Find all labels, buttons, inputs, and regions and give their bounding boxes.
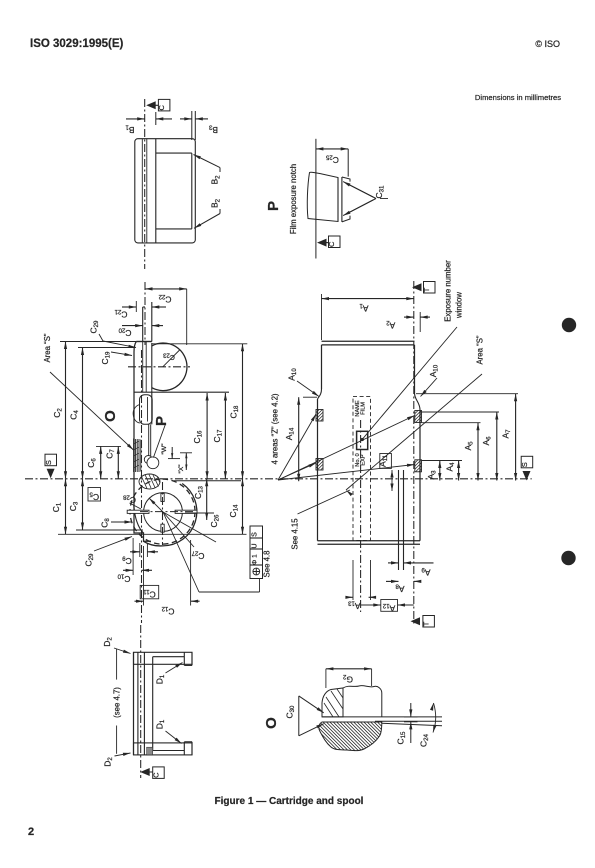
area S leader right bbox=[346, 374, 482, 496]
view3 chamber slot top bbox=[161, 494, 164, 502]
dimension B1 bbox=[126, 112, 172, 125]
svg-text:S: S bbox=[44, 460, 53, 465]
label C24 bbox=[419, 733, 431, 747]
view3 vertical centerline lower bbox=[141, 350, 143, 623]
svg-text:C: C bbox=[157, 105, 166, 111]
dimension A7 bbox=[514, 394, 517, 481]
dimension C24 arc bbox=[430, 703, 437, 733]
label B3 bbox=[208, 123, 218, 135]
svg-text:See 4.15: See 4.15 bbox=[291, 518, 300, 550]
frame leader bbox=[163, 512, 260, 592]
dimension C25 bbox=[316, 147, 348, 176]
view3 spool core circle bbox=[144, 493, 183, 532]
label C18 bbox=[229, 405, 241, 419]
svg-text:FILM: FILM bbox=[361, 402, 367, 415]
dimension C15 bbox=[404, 703, 418, 743]
dimension C6 bbox=[99, 446, 102, 478]
note see 4.15 bbox=[291, 490, 351, 550]
note dimensions in millimetres bbox=[475, 93, 561, 102]
svg-text:Film exposure notch: Film exposure notch bbox=[289, 164, 298, 234]
label A3 bbox=[426, 470, 438, 480]
dimension G2 bbox=[326, 667, 372, 688]
dimension C9 bbox=[130, 543, 158, 557]
label B2 lower bbox=[210, 198, 222, 208]
label A9 bbox=[421, 566, 431, 578]
view4 datum T top bbox=[412, 282, 435, 294]
area S leader bbox=[50, 372, 134, 450]
ext line bulb top right bbox=[152, 343, 247, 345]
view4 right edge bbox=[415, 345, 421, 541]
svg-text:© ISO: © ISO bbox=[535, 39, 560, 49]
annotation 4 areas Z bbox=[271, 393, 280, 464]
view3 film chamber bulb bbox=[152, 343, 187, 391]
view5 datum C bbox=[140, 767, 164, 779]
label C7 bbox=[105, 449, 117, 459]
label C16 bbox=[192, 430, 204, 444]
area S annotation bbox=[43, 333, 52, 362]
dimension A3 bbox=[438, 461, 441, 481]
view2 notch V lines bbox=[343, 182, 376, 216]
label C22 bbox=[158, 293, 172, 305]
view1 datum C bbox=[146, 99, 170, 111]
label G2 bbox=[342, 673, 353, 685]
view4 window ext lines bbox=[353, 560, 371, 600]
view2 datum C bbox=[317, 236, 340, 248]
feature control frame bbox=[250, 526, 263, 579]
view4 exp no text bbox=[355, 453, 367, 466]
annotation exposure number window bbox=[444, 260, 464, 322]
label C30 bbox=[285, 705, 297, 719]
ext line chamber step right bbox=[140, 533, 247, 535]
label D2 upper bbox=[102, 637, 131, 654]
label A12 boxed bbox=[361, 600, 414, 614]
dimension A11 arrows bbox=[390, 470, 393, 491]
dimension C17 bbox=[224, 393, 227, 479]
label C6 bbox=[86, 458, 98, 468]
view3 spool chamber dashed circle bbox=[130, 479, 195, 544]
view3 lip hump bbox=[133, 405, 140, 424]
view3 light trap finger bbox=[140, 395, 153, 425]
label C4 bbox=[69, 410, 81, 420]
view3 film slit to gate bbox=[143, 342, 147, 393]
ext line shoulder left bbox=[60, 341, 136, 343]
svg-text:“X”: “X” bbox=[178, 464, 185, 474]
label C3 bbox=[68, 501, 80, 511]
view4 top edge bbox=[322, 341, 415, 345]
svg-text:O: O bbox=[263, 717, 280, 729]
datum S right bbox=[520, 456, 533, 480]
view4 film slot bbox=[399, 470, 404, 570]
view5 core bbox=[134, 652, 153, 755]
svg-text:“W”: “W” bbox=[161, 443, 168, 455]
svg-text:NAME: NAME bbox=[355, 400, 361, 416]
view2 title film exposure notch bbox=[289, 164, 298, 234]
label P view3 bbox=[153, 416, 170, 458]
view4 left edge bbox=[318, 345, 322, 541]
label C21 bbox=[114, 308, 128, 320]
label A10 left bbox=[287, 368, 320, 397]
svg-text:Dimensions in millimetres: Dimensions in millimetres bbox=[475, 93, 561, 102]
label D2 lower bbox=[103, 753, 131, 767]
see 4.7 bracket bbox=[116, 649, 118, 754]
svg-text:2: 2 bbox=[28, 826, 34, 838]
copyright ISO top right bbox=[535, 39, 560, 49]
view6 upper-right lobe bbox=[343, 686, 382, 717]
svg-text:C: C bbox=[327, 241, 336, 247]
view5 top flange bbox=[134, 652, 193, 665]
view3 lip outline bbox=[143, 302, 152, 342]
view3 chamber horizontal centerline bbox=[140, 511, 193, 513]
dimension A2 bbox=[404, 312, 430, 332]
view3 bulb radius C23 bbox=[163, 350, 180, 367]
label D1 lower bbox=[155, 719, 182, 743]
svg-text:Exposure number: Exposure number bbox=[444, 260, 453, 322]
view3 bulb chord extension bbox=[151, 391, 153, 425]
figure caption bbox=[215, 796, 364, 807]
ext line C4 top bbox=[78, 347, 134, 349]
datum S left bbox=[44, 454, 57, 478]
dimension C14 bbox=[241, 479, 244, 535]
label C13 bbox=[193, 485, 205, 499]
callout B2 lower bbox=[194, 209, 220, 228]
view2 edge line bbox=[315, 139, 317, 259]
label X bbox=[178, 464, 185, 474]
view4 slot ext lines bbox=[398, 558, 400, 570]
label A5 bbox=[463, 441, 475, 451]
view5 bottom flange bbox=[134, 742, 193, 755]
label C1 bbox=[51, 502, 63, 512]
dimension X bbox=[180, 453, 192, 470]
view4 window centerline bbox=[360, 420, 362, 612]
label C29 top bbox=[89, 320, 137, 348]
label C10 bbox=[117, 572, 131, 584]
dimension C16 bbox=[206, 393, 209, 479]
dimension A4 bbox=[457, 461, 460, 481]
label B2 upper bbox=[210, 175, 222, 185]
dimension C3 bbox=[81, 479, 84, 530]
view3 chamber vertical centerline bbox=[162, 482, 164, 545]
dimension A14 bbox=[297, 397, 317, 481]
view3 shoulder bbox=[136, 341, 152, 343]
svg-text:P: P bbox=[153, 416, 170, 426]
ext line A7 bbox=[416, 393, 518, 395]
label O view3 bbox=[102, 410, 119, 422]
view1 body film plane line bbox=[155, 139, 157, 243]
dimension C7 bbox=[117, 446, 120, 478]
label C11 boxed bbox=[140, 585, 159, 599]
label B1 bbox=[125, 123, 135, 135]
svg-text:See 4.8: See 4.8 bbox=[263, 551, 272, 578]
view2 notch body bbox=[307, 172, 350, 222]
view3 radial arrow C28 bbox=[149, 498, 163, 512]
dimension B3 bbox=[180, 111, 208, 140]
dimension C21 bbox=[122, 301, 166, 312]
dimension A1 bbox=[322, 294, 414, 340]
label A8 bbox=[395, 582, 405, 594]
svg-text:Area “S”: Area “S” bbox=[476, 335, 485, 364]
view2 label P bbox=[265, 201, 282, 211]
view4 hatched area Z left-bottom bbox=[316, 459, 323, 471]
label C19 bbox=[100, 351, 132, 365]
label C5 boxed bbox=[88, 488, 101, 503]
label A6 bbox=[481, 436, 493, 446]
view1 inner recess bbox=[156, 153, 192, 229]
dimension A5 bbox=[476, 423, 479, 481]
view3 vertical centerline upper bbox=[144, 282, 146, 345]
view3 roller W bbox=[147, 457, 159, 469]
label C8 bbox=[100, 518, 133, 528]
label A1 bbox=[359, 302, 369, 314]
view3 felt light trap bbox=[134, 439, 141, 473]
view4 datum line T bbox=[413, 281, 415, 625]
header text ISO 3029:1995(E) bbox=[30, 38, 124, 50]
view5 centerline bbox=[140, 625, 142, 778]
view3 roller small bbox=[144, 456, 152, 464]
dimension C22 bbox=[145, 287, 187, 290]
label C9 bbox=[122, 554, 132, 566]
view4 hatched area Z left-top bbox=[316, 410, 323, 422]
label C12 bbox=[161, 605, 175, 617]
ext line C22 right bbox=[186, 289, 188, 345]
view3 bulb centerline bbox=[128, 366, 190, 368]
registration dot lower bbox=[561, 551, 575, 565]
view4 film name panel dashed bbox=[353, 397, 371, 541]
view4 hatched area Z right-bottom bbox=[415, 460, 422, 472]
view3 chamber slot bottom bbox=[161, 524, 164, 532]
ext line A6 bbox=[420, 411, 499, 413]
svg-text:O: O bbox=[102, 410, 119, 422]
svg-text:window: window bbox=[455, 292, 464, 319]
view3 left profile bbox=[134, 342, 151, 542]
areas Z leaders bbox=[278, 414, 415, 480]
view4 datum T bottom bbox=[411, 616, 435, 628]
label C25 bbox=[325, 153, 339, 165]
svg-text:Figure 1 — Cartridge and spool: Figure 1 — Cartridge and spool bbox=[215, 796, 364, 807]
page number 2 bbox=[28, 826, 34, 838]
svg-text:S: S bbox=[251, 532, 258, 537]
dimension A8 bbox=[386, 580, 421, 583]
view6 lower mass bbox=[319, 722, 382, 751]
view3 horizontal centerline bbox=[25, 478, 532, 480]
view1 centerline bbox=[144, 99, 146, 269]
label C31 bbox=[374, 185, 388, 199]
label C27 bbox=[163, 512, 216, 561]
view6 upper-left lobe bbox=[322, 688, 343, 717]
svg-text:U: U bbox=[251, 543, 258, 548]
view6 lower mass hatch bbox=[318, 722, 382, 751]
ext line C6 C7 top bbox=[96, 445, 121, 447]
svg-text:(see 4.7): (see 4.7) bbox=[113, 687, 122, 718]
dimension C12 bbox=[135, 540, 200, 606]
label C29 bottom bbox=[84, 537, 133, 567]
exposure window leader bbox=[362, 327, 457, 439]
annotation see 4.7 bbox=[113, 687, 122, 718]
label C14 bbox=[228, 504, 240, 518]
dimension C18 bbox=[241, 344, 244, 479]
view4 hatched area Z right-top bbox=[415, 411, 422, 423]
area S annotation right bbox=[476, 335, 485, 364]
ext line C3 bottom bbox=[76, 529, 143, 531]
C30 callout bbox=[299, 696, 324, 736]
svg-text:S: S bbox=[520, 462, 529, 467]
dimension A13 bbox=[345, 596, 376, 599]
dimension A6 bbox=[495, 412, 498, 481]
registration dot upper bbox=[562, 318, 576, 332]
label A10 right bbox=[421, 364, 440, 396]
view3 gate hatched block bbox=[139, 474, 160, 489]
dimension C2 bbox=[64, 342, 67, 479]
dimension C20 bbox=[122, 324, 163, 327]
view5 gray patch bbox=[147, 747, 153, 755]
label C26 bbox=[185, 513, 221, 527]
label C17 bbox=[212, 429, 224, 443]
label A2 bbox=[386, 319, 396, 331]
label C2 bbox=[52, 408, 64, 418]
dimension C4 bbox=[81, 348, 84, 479]
svg-text:ISO 3029:1995(E): ISO 3029:1995(E) bbox=[30, 38, 124, 50]
label A11 boxed bbox=[378, 454, 392, 469]
svg-text:4 areas “Z” (see 4.2): 4 areas “Z” (see 4.2) bbox=[271, 393, 280, 464]
label A4 bbox=[445, 462, 457, 472]
dimension C1 bbox=[64, 479, 67, 535]
view4 exposure number window box bbox=[357, 431, 368, 449]
view3 film channel bbox=[149, 424, 151, 456]
view4 bottom edge bbox=[318, 541, 421, 545]
label C28 bbox=[122, 493, 141, 509]
label W bbox=[161, 443, 168, 455]
view1 film slit lines bbox=[142, 139, 147, 243]
ext line A5 bbox=[422, 422, 481, 424]
label A13 bbox=[347, 599, 360, 611]
svg-text:Area “S”: Area “S” bbox=[43, 333, 52, 362]
view3 chamber floor line bbox=[135, 391, 230, 393]
svg-text:T: T bbox=[422, 287, 431, 292]
label C20 bbox=[118, 326, 132, 338]
view1 body outline bbox=[135, 139, 196, 243]
label C15 bbox=[396, 731, 408, 745]
view4 film name text bbox=[355, 400, 367, 416]
dimension A9 bbox=[388, 561, 434, 564]
label O view6 bbox=[263, 717, 280, 729]
view3 spool chamber wall bbox=[134, 481, 241, 546]
note see 4.8 bbox=[263, 551, 272, 578]
svg-text:C: C bbox=[151, 772, 160, 778]
svg-text:T: T bbox=[422, 621, 431, 626]
svg-text:P: P bbox=[265, 201, 282, 211]
label C23 bbox=[162, 351, 174, 360]
view3 chamber slot right bbox=[175, 510, 197, 513]
svg-text:EXP: EXP bbox=[361, 454, 367, 465]
svg-text:Φ 1: Φ 1 bbox=[251, 554, 258, 565]
ext line A3 A4 bbox=[422, 460, 463, 462]
dimension W bbox=[168, 447, 180, 459]
view3 chamber slot left bbox=[127, 510, 149, 513]
dimension C10 bbox=[123, 538, 152, 575]
ext line C1 bottom bbox=[58, 533, 140, 535]
callout B2 upper bbox=[194, 155, 221, 173]
label A7 bbox=[501, 429, 513, 439]
view6 slot lines bbox=[322, 717, 442, 726]
label D1 upper bbox=[155, 663, 183, 685]
label A14 bbox=[284, 427, 296, 440]
dimension C13 bbox=[205, 479, 208, 520]
